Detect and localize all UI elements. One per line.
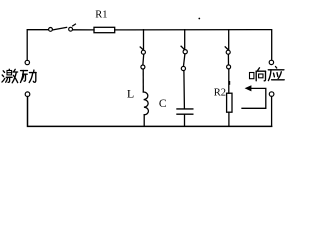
- wire branch C top: [184, 30, 186, 50]
- wire L coil to bottom: [143, 115, 145, 127]
- switch SL tick: [140, 47, 143, 50]
- wire branch L top: [143, 30, 145, 50]
- svg-text:R1: R1: [95, 10, 107, 21]
- port label 响应: [250, 67, 285, 81]
- inductor L coil: [143, 92, 148, 115]
- wire R2 to bottom: [228, 112, 230, 126]
- switch SL bottom contact: [141, 65, 145, 69]
- svg-text:R2: R2: [214, 88, 226, 99]
- char 激: [2, 69, 18, 82]
- wire bottom-left vertical: [28, 97, 272, 127]
- wire top-left horizontal: [27, 30, 48, 61]
- terminal bottom-left: [25, 92, 30, 97]
- response arrowhead: [245, 85, 252, 91]
- switch S blade: [53, 27, 67, 30]
- port label 激励: [2, 69, 36, 82]
- wire bottom-right vertical: [271, 97, 273, 127]
- wire switch to R1: [73, 29, 94, 31]
- svg-text:L: L: [127, 86, 134, 100]
- switch SC top contact: [183, 50, 187, 54]
- wire branch R2 top: [228, 30, 230, 50]
- wire switch to R2: [228, 69, 230, 93]
- switch SC bottom contact: [181, 66, 185, 70]
- switch SR tick: [225, 47, 228, 50]
- wire switch to capacitor: [183, 71, 186, 109]
- junction nub on R2 wire: [228, 82, 230, 84]
- switch S tick: [73, 24, 76, 26]
- wire switch to L coil: [142, 69, 144, 92]
- stray ink speck: [198, 18, 200, 20]
- terminal top-right: [269, 60, 273, 64]
- switch SL blade: [142, 54, 145, 64]
- char 励: [21, 70, 37, 83]
- resistor R1 body: [94, 27, 115, 32]
- switch SC tick: [181, 46, 184, 49]
- terminal top-left: [25, 60, 29, 64]
- switch SR bottom contact: [227, 65, 231, 69]
- switch S right contact: [69, 27, 73, 31]
- wire R1 to right corner: [115, 30, 272, 60]
- switch S (source) left contact: [49, 28, 53, 32]
- switch SR top contact: [226, 50, 230, 54]
- char 响: [250, 68, 266, 81]
- switch SL top contact: [141, 50, 145, 54]
- switch SC blade: [184, 54, 185, 66]
- char 应: [268, 67, 284, 81]
- terminal bottom-right: [269, 92, 274, 97]
- wire capacitor to bottom: [184, 115, 186, 126]
- response pick-off arrow path: [242, 88, 266, 108]
- capacitor C bottom plate: [177, 113, 193, 115]
- resistor R2 body: [227, 93, 232, 112]
- svg-text:C: C: [159, 98, 167, 110]
- switch SR blade: [227, 54, 229, 64]
- capacitor C top plate: [177, 108, 193, 110]
